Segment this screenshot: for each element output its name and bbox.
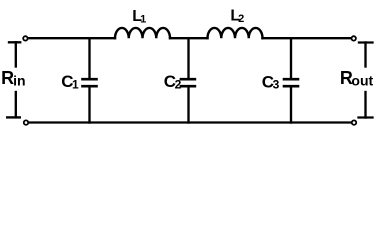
svg-text:C3: C3: [262, 72, 280, 91]
inductor L2: [208, 28, 263, 38]
capacitor C1: [83, 38, 97, 122]
terminal top-right: [352, 36, 356, 40]
capacitor C3: [284, 38, 298, 122]
capacitor C2: [181, 38, 195, 122]
resistor Rout body: [359, 43, 373, 118]
wire top rail middle segment: [170, 37, 208, 39]
terminal bottom-right: [352, 120, 356, 124]
svg-text:L2: L2: [230, 7, 244, 25]
terminal top-left: [23, 36, 27, 40]
terminal bottom-left: [24, 120, 28, 124]
wire top rail left segment: [25, 37, 115, 39]
svg-text:C1: C1: [61, 72, 79, 91]
wire bottom rail: [26, 121, 354, 123]
svg-text:L1: L1: [132, 8, 146, 26]
resistor Rin body: [7, 42, 20, 117]
svg-text:Rin: Rin: [1, 68, 25, 88]
inductor L1: [115, 28, 170, 38]
svg-text:Rout: Rout: [340, 68, 374, 88]
wire top rail right segment: [263, 37, 354, 39]
svg-text:C2: C2: [164, 72, 182, 91]
